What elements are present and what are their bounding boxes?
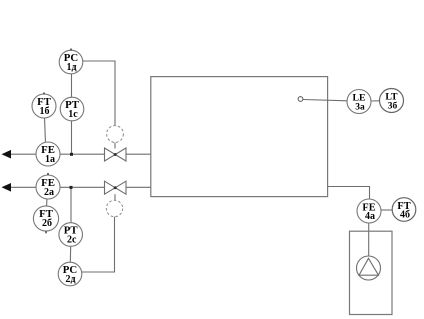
valve V2 [105,181,127,194]
wire line2 junction to PT2c [70,187,72,224]
instrument FT1b [32,93,56,119]
svg-text:1c: 1c [68,109,78,120]
svg-text:1д: 1д [66,62,76,73]
node valve2 stem junction [114,186,117,189]
pump housing rectangle [350,231,393,314]
svg-text:2б: 2б [42,218,52,229]
svg-text:2д: 2д [65,274,75,285]
wire PT1c to line1 junction [71,120,73,154]
wire line1 arrow-to-valve [9,153,105,155]
instrument PT1c [60,97,84,121]
node valve1 stem junction [114,153,117,156]
wire line2 valve-to-vessel [126,186,151,188]
wire actuator1 to valve1 [114,142,116,148]
instrument FE1a [36,142,60,166]
wire valve2 to actuator2 [114,194,116,200]
wire FE2a to FT2b [46,198,49,207]
wire vessel outlet to FE4a [328,187,370,201]
wire level tap to LE3a [303,100,348,101]
wire PC1d to PT1c [71,73,73,98]
svg-text:1б: 1б [40,106,50,117]
instrument FT2b [33,206,58,233]
instrument PT2c [59,223,83,247]
actuator A1 dashed circle [107,126,124,143]
instrument FE2a [36,173,60,199]
svg-text:4a: 4a [365,211,375,222]
instrument LE3a [347,90,371,114]
instrument PC2d [58,262,82,286]
instrument PC1d [59,49,83,74]
wire LE3a to LT3b [371,100,381,102]
wire FT1b to FE1a [45,117,46,144]
svg-text:3б: 3б [388,100,398,111]
wire FE4a to pump [368,223,370,257]
vessel main rectangle [151,77,328,197]
node junction line2 [70,186,73,189]
node level tap [298,97,303,102]
svg-text:2c: 2c [67,234,77,245]
svg-text:3a: 3a [355,102,365,112]
svg-text:4б: 4б [400,209,410,220]
instrument LT3b [380,89,404,113]
pump circle [357,256,381,280]
node junction line1 [70,153,73,156]
svg-text:2a: 2a [44,187,54,198]
pump impeller triangle [359,258,379,275]
wire line2 arrow-to-valve [9,186,105,188]
actuator A2 dashed circle [106,200,122,216]
instrument FE4a [357,199,381,223]
valve V1 [105,148,127,161]
instrument FT4b [392,198,416,222]
wire PC1d to actuator1 [82,61,115,126]
svg-text:1a: 1a [45,154,55,165]
arrow outflow line2 [2,183,12,192]
wire FE4a to FT4b [381,209,393,211]
arrow outflow line1 [2,150,12,159]
wire line1 valve-to-vessel [126,153,151,155]
wire PT2c to PC2d [69,246,71,263]
wire PC2d to actuator2 [82,216,115,272]
